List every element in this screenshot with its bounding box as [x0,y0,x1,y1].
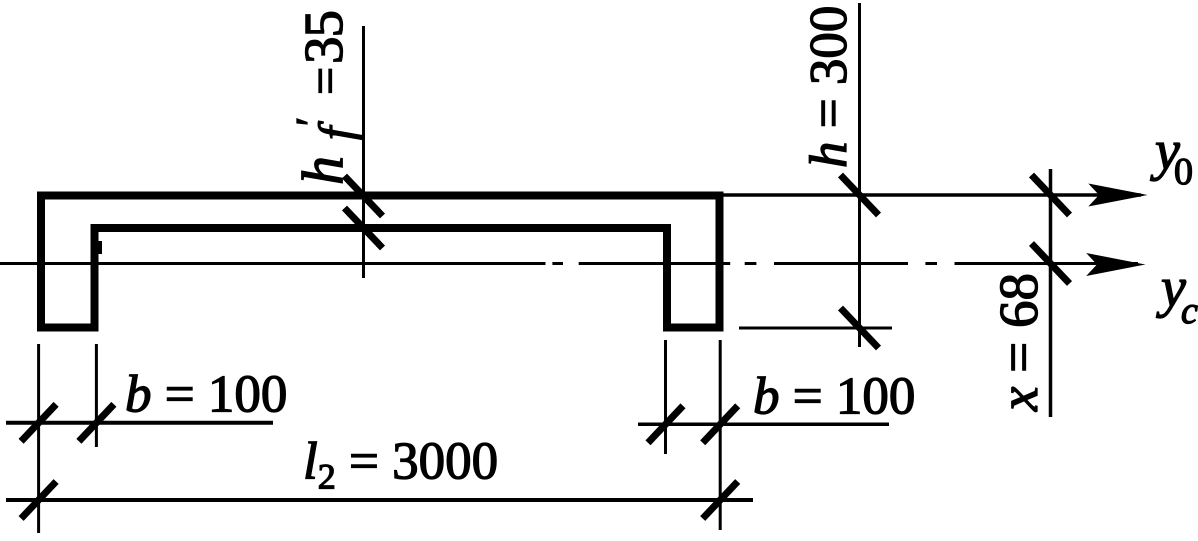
svg-text:l2 = 3000: l2 = 3000 [303,433,498,497]
svg-text:c: c [1181,290,1198,332]
svg-text:x = 68: x = 68 [988,273,1049,412]
svg-text:b = 100: b = 100 [753,368,915,426]
svg-text:h: h [290,156,355,185]
svg-text:=: = [297,67,353,95]
svg-text:′: ′ [289,117,335,126]
svg-text:0: 0 [1174,151,1193,193]
svg-text:35: 35 [293,11,354,64]
svg-text:h = 300: h = 300 [800,6,858,168]
svg-text:b = 100: b = 100 [125,366,287,424]
